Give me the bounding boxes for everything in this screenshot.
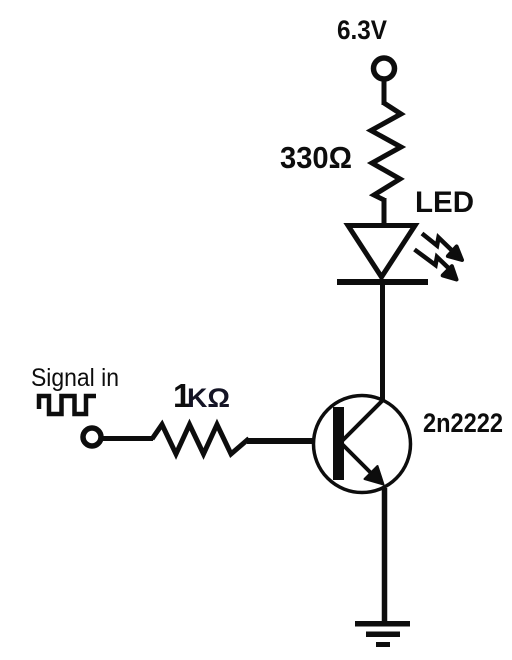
wire resistor R1 to LED D1 — [382, 198, 387, 227]
value label 1Kohm — [173, 377, 230, 414]
ground symbol — [355, 624, 410, 645]
label 2n2222 — [423, 408, 503, 438]
resistor R2 1Kohm — [152, 425, 249, 455]
LED D1 light emission arrow 2 — [415, 250, 457, 280]
value label 330ohm — [280, 140, 352, 175]
square wave symbol — [39, 396, 96, 414]
resistor R1 330ohm — [371, 103, 401, 200]
wire LED D1 to transistor Q1 collector — [380, 284, 385, 401]
transistor Q1 collector lead — [341, 399, 384, 442]
wire resistor R2 to transistor Q1 base — [247, 438, 334, 444]
svg-text:330Ω: 330Ω — [280, 140, 352, 175]
svg-text:LED: LED — [415, 186, 474, 219]
wire input terminal to resistor R2 — [101, 436, 153, 441]
wire terminal to resistor R1 — [382, 79, 387, 105]
LED D1 cathode bar — [337, 279, 428, 285]
wire transistor Q1 emitter to ground — [382, 488, 388, 623]
label Signal in — [31, 364, 119, 392]
terminal 6.3V supply — [374, 58, 395, 79]
svg-text:6.3V: 6.3V — [337, 15, 387, 45]
svg-text:KΩ: KΩ — [187, 383, 230, 413]
transistor Q1 emitter lead with arrow — [342, 444, 384, 485]
transistor Q1 body circle — [314, 396, 411, 493]
transistor Q1 base bar — [333, 407, 344, 480]
label LED — [415, 186, 474, 219]
terminal signal input — [83, 428, 101, 446]
svg-text:Signal in: Signal in — [31, 364, 119, 392]
svg-text:2n2222: 2n2222 — [423, 408, 503, 438]
net label 6.3V — [337, 15, 387, 45]
LED D1 anode triangle — [348, 226, 415, 278]
LED D1 light emission arrow 1 — [422, 234, 462, 261]
